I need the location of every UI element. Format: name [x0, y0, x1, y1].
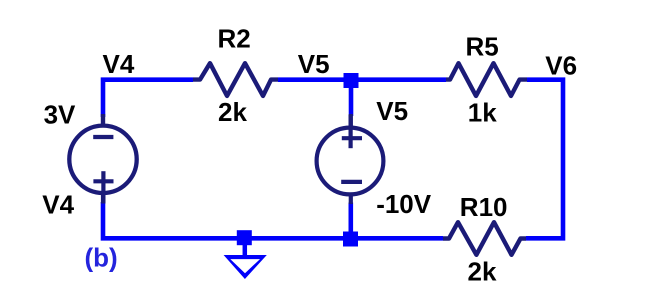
voltage source V4 minus sign: [93, 135, 113, 139]
voltage source V5 pin top: [349, 114, 353, 128]
wire middle vertical lower: [348, 203, 353, 239]
svg-text:2k: 2k: [468, 257, 497, 287]
svg-text:V4: V4: [103, 49, 135, 79]
svg-text:-10V: -10V: [376, 189, 432, 219]
voltage source V4 pin bottom: [101, 193, 105, 204]
svg-text:2k: 2k: [218, 97, 247, 127]
wire middle vertical upper: [349, 80, 354, 116]
voltage source V5 pin bottom: [349, 195, 353, 204]
voltage source V5 minus sign: [341, 180, 362, 184]
svg-text:3V: 3V: [44, 100, 76, 130]
node junction square at ground: [237, 230, 252, 245]
svg-text:R10: R10: [460, 192, 508, 222]
svg-text:V5: V5: [376, 96, 408, 126]
svg-text:R5: R5: [466, 32, 499, 62]
wire left vertical lower + bottom rail: [103, 202, 443, 238]
wire top rail middle segment: [278, 77, 446, 82]
wire top-left corner and top rail left segment: [103, 80, 193, 117]
voltage source V4 plus sign: [93, 179, 113, 183]
resistor R5 zigzag: [446, 63, 527, 96]
voltage source V5 plus sign: [342, 136, 362, 140]
wire top rail right segment + right vertical + bottom right: [526, 80, 563, 239]
ground symbol triangle: [224, 255, 267, 279]
resistor R10 zigzag: [443, 222, 526, 255]
voltage source V4 pin top: [101, 114, 105, 125]
voltage source V4 circle: [69, 126, 136, 193]
svg-text:V5: V5: [298, 49, 330, 79]
ground stub wire: [243, 244, 248, 256]
voltage source V5 circle: [317, 128, 384, 195]
svg-text:V4: V4: [42, 190, 74, 220]
svg-text:(b): (b): [85, 243, 118, 273]
svg-text:1k: 1k: [468, 98, 497, 128]
node junction square bottom middle: [343, 232, 358, 247]
svg-text:R2: R2: [218, 24, 251, 54]
svg-text:V6: V6: [545, 50, 577, 80]
resistor R2 zigzag: [193, 63, 278, 96]
node V5 junction square top: [344, 73, 359, 88]
